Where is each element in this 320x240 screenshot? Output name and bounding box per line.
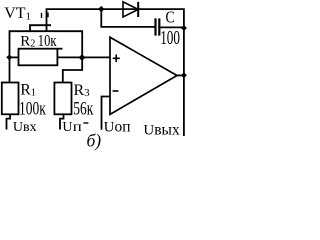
svg-text:Uвых: Uвых xyxy=(143,122,180,139)
svg-text:Uвх: Uвх xyxy=(13,120,37,135)
svg-text:10к: 10к xyxy=(38,32,57,50)
svg-text:100: 100 xyxy=(160,26,180,48)
svg-text:U: U xyxy=(62,120,72,135)
svg-text:56к: 56к xyxy=(73,98,93,119)
svg-text:Uоп: Uоп xyxy=(104,118,131,135)
svg-text:б): б) xyxy=(87,130,102,150)
svg-text:C: C xyxy=(166,8,175,27)
svg-text:п: п xyxy=(73,119,82,134)
svg-text:100к: 100к xyxy=(19,98,46,119)
